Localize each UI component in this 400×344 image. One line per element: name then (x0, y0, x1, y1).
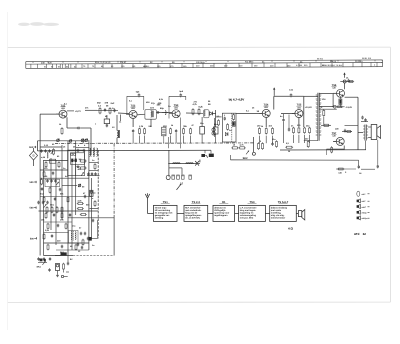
svg-text:AVR-gelijk-: AVR-gelijk- (214, 209, 226, 212)
svg-text:32: 32 (363, 232, 367, 236)
svg-text:met vaste: met vaste (271, 209, 282, 212)
svg-text:detector en: detector en (214, 206, 226, 209)
svg-text:100 MHz: 100 MHz (196, 61, 206, 64)
svg-text:uitg. via uitg.: uitg. via uitg. (271, 214, 285, 217)
svg-text:sterking: sterking (155, 217, 164, 220)
svg-text:mV/μ: mV/μ (362, 212, 368, 215)
svg-text:37p: 37p (151, 102, 155, 105)
svg-text:-13,4V: -13,4V (346, 106, 353, 109)
svg-text:volumeregeling: volumeregeling (240, 214, 257, 217)
svg-text:eerste trap:: eerste trap: (155, 206, 167, 209)
svg-text:4,4 4,7 5,0 5,4 5,8: 4,4 4,7 5,0 5,4 5,8 (95, 61, 110, 64)
svg-text:instelling,: instelling, (271, 212, 282, 215)
svg-text:+13,4V: +13,4V (305, 106, 313, 109)
svg-text:king met tegen-: king met tegen- (240, 209, 256, 212)
svg-text:KG 49m: KG 49m (245, 61, 253, 64)
svg-text:L.F. voorverster-: L.F. voorverster- (240, 206, 257, 209)
svg-text:14 (n): 14 (n) (331, 60, 336, 63)
svg-text:balans eindtrap: balans eindtrap (271, 206, 288, 209)
svg-text:bij 4,7-4,9V: bij 4,7-4,9V (229, 98, 245, 102)
svg-text:mV/³: mV/³ (362, 206, 367, 209)
svg-text:4 Ω: 4 Ω (288, 226, 294, 230)
svg-text:M.F. versterker: M.F. versterker (185, 206, 200, 209)
svg-text:19 16m: 19 16m (355, 60, 362, 63)
svg-text:W 7nn: W 7nn (317, 57, 324, 60)
svg-text:mV/μ₅: mV/μ₅ (362, 217, 368, 220)
svg-text:ATd: ATd (354, 232, 360, 236)
svg-text:48 41 1: 48 41 1 (143, 65, 149, 68)
svg-text:spiegelfrequen-: spiegelfrequen- (185, 214, 202, 217)
svg-text:45·41·38 GOLF 7X BLV: 45·41·38 GOLF 7X BLV (322, 64, 343, 67)
svg-text:mV¹: mV¹ (362, 193, 366, 196)
svg-text:met pot. SK2: met pot. SK2 (240, 217, 254, 220)
svg-text:en mengtrap met: en mengtrap met (155, 212, 173, 215)
svg-text:koppeling en: koppeling en (240, 212, 254, 215)
svg-text:king van de: king van de (185, 212, 198, 215)
svg-text:FM 87: FM 87 (120, 61, 127, 64)
svg-text:met onderdruk-: met onderdruk- (185, 209, 201, 212)
svg-text:HF-versterking: HF-versterking (155, 209, 171, 212)
svg-text:mV²: mV² (362, 200, 366, 203)
svg-text:+0,7V: +0,7V (75, 110, 81, 113)
svg-text:W 80· 2 B: W 80· 2 B (362, 57, 372, 60)
svg-text:spanning voor: spanning voor (214, 212, 229, 215)
svg-text:transformator: transformator (271, 217, 285, 220)
svg-text:40S: 40S (158, 102, 162, 105)
svg-text:regeltrappen: regeltrappen (214, 214, 228, 217)
svg-text:tie, ca 470 kHz: tie, ca 470 kHz (185, 217, 201, 220)
svg-text:geregelde ver-: geregelde ver- (155, 214, 170, 217)
svg-text:5 C200: 5 C200 (296, 64, 302, 67)
svg-text:SK2: SK2 (243, 157, 248, 160)
svg-text:2nF: 2nF (111, 102, 116, 105)
svg-text:82p: 82p (160, 107, 164, 110)
